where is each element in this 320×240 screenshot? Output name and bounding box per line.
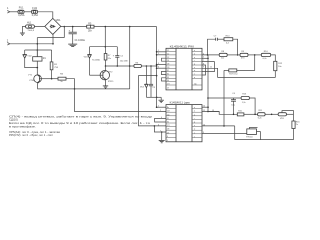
svg-text:в: в xyxy=(194,57,195,59)
node xyxy=(105,46,107,48)
ground xyxy=(159,97,164,102)
node xyxy=(271,114,273,116)
capacitor C1 xyxy=(69,27,86,44)
svg-text:5: 5 xyxy=(203,57,204,59)
node xyxy=(74,88,76,90)
zener VD4 xyxy=(140,66,148,97)
svg-text:0: 0 xyxy=(167,136,168,138)
node xyxy=(156,75,158,77)
svg-text:К145ИК11 (два: К145ИК11 (два xyxy=(170,101,190,105)
svg-text:С4: С4 xyxy=(167,60,169,62)
node xyxy=(37,67,39,69)
svg-text:д: д xyxy=(194,122,195,124)
svg-text:FU1: FU1 xyxy=(19,7,24,10)
node xyxy=(156,97,158,99)
node xyxy=(254,54,256,56)
svg-text:VD1: VD1 xyxy=(56,19,61,22)
svg-text:7: 7 xyxy=(160,130,161,132)
DD1 pin loop xyxy=(162,71,167,74)
fuse FU1 xyxy=(18,7,25,17)
zener VD2 xyxy=(23,50,38,68)
svg-text:СТ: СТ xyxy=(167,87,169,89)
wire xyxy=(22,27,25,33)
wire xyxy=(37,37,64,39)
wire xyxy=(146,96,161,98)
DD2 left pin wires xyxy=(156,106,166,133)
svg-text:4: 4 xyxy=(203,53,204,55)
svg-text:6: 6 xyxy=(158,67,159,69)
ground xyxy=(68,44,77,46)
svg-text:1: 1 xyxy=(158,106,159,108)
transistor VT2 xyxy=(100,66,113,86)
DD1 right pin wires xyxy=(202,53,219,77)
wire xyxy=(223,70,225,126)
svg-text:13: 13 xyxy=(212,110,214,112)
svg-text:9: 9 xyxy=(203,67,204,69)
terminal X2 xyxy=(7,39,10,46)
ground xyxy=(103,86,108,88)
wire lower rail xyxy=(208,112,237,115)
svg-text:в противофазе.: в противофазе. xyxy=(9,124,36,128)
wire xyxy=(154,126,166,132)
svg-text:2: 2 xyxy=(158,53,159,55)
crystal network C7 xyxy=(208,35,225,55)
DD2 pin loop xyxy=(155,118,166,122)
svg-text:СП(4) - вывод сетевых, работае: СП(4) - вывод сетевых, работает в паре с… xyxy=(9,115,153,119)
svg-text:0,25A: 0,25A xyxy=(32,14,39,17)
capacitor C3 xyxy=(149,66,156,97)
node xyxy=(37,49,39,51)
svg-text:8: 8 xyxy=(203,63,204,65)
note text block xyxy=(9,115,153,137)
svg-text:и: и xyxy=(194,77,195,79)
wire xyxy=(52,78,58,80)
node xyxy=(117,65,119,67)
node xyxy=(51,78,53,80)
svg-text:К1: К1 xyxy=(167,118,169,120)
DD1 pin loop xyxy=(162,78,167,81)
svg-text:10м 16В: 10м 16В xyxy=(120,61,128,63)
svg-text:2к: 2к xyxy=(296,124,298,126)
node xyxy=(154,125,156,127)
svg-text:К1: К1 xyxy=(167,70,169,72)
svg-text:е: е xyxy=(194,125,195,127)
resistor R6 xyxy=(134,63,157,68)
wire xyxy=(271,55,276,61)
svg-text:б: б xyxy=(194,53,195,55)
node xyxy=(237,54,239,56)
svg-text:КТ361: КТ361 xyxy=(29,80,34,82)
svg-text:а: а xyxy=(194,107,195,109)
capacitor C4 xyxy=(208,93,241,114)
svg-text:С1: С1 xyxy=(167,50,169,52)
svg-text:51к: 51к xyxy=(108,58,111,60)
node xyxy=(105,65,107,67)
wire xyxy=(36,68,38,76)
wire xyxy=(63,27,65,38)
svg-text:К145ИК11 РМ: К145ИК11 РМ xyxy=(170,45,195,49)
svg-text:0,25A: 0,25A xyxy=(18,14,25,17)
svg-text:в: в xyxy=(194,114,195,116)
wire module top xyxy=(90,46,118,48)
svg-text:С3: С3 xyxy=(167,57,169,59)
wire VT2 rail xyxy=(106,65,134,67)
svg-text:а: а xyxy=(194,50,195,52)
svg-text:ТН-0,3: ТН-0,3 xyxy=(27,30,34,32)
svg-text:д: д xyxy=(194,64,195,66)
svg-text:14: 14 xyxy=(203,106,205,108)
resistor R14 xyxy=(224,36,238,55)
node xyxy=(72,26,74,28)
svg-text:7: 7 xyxy=(203,60,204,62)
svg-text:С2: С2 xyxy=(167,53,169,55)
wire relay rail xyxy=(25,49,52,51)
svg-text:R17 1Ом: R17 1Ом xyxy=(229,73,238,75)
svg-text:6,2к: 6,2к xyxy=(263,58,267,60)
resistor R15 xyxy=(237,111,257,116)
node xyxy=(233,114,235,116)
svg-text:Вх: Вх xyxy=(167,107,169,109)
ground xyxy=(20,33,25,35)
capacitor C2 xyxy=(113,47,128,66)
wire bus2 xyxy=(207,55,209,112)
IC DD2 xyxy=(166,101,202,143)
lamp HL1 xyxy=(26,22,35,32)
wire xyxy=(10,11,18,13)
resistor R13 xyxy=(241,93,255,114)
wire xyxy=(234,126,236,140)
resistor R1 xyxy=(50,50,59,79)
resistor R7 xyxy=(104,47,111,66)
wire base xyxy=(39,78,51,80)
svg-text:11: 11 xyxy=(210,67,212,69)
svg-text:К2: К2 xyxy=(167,74,169,76)
node xyxy=(254,114,256,116)
wire bottom rail xyxy=(235,139,294,141)
wire xyxy=(34,25,44,27)
svg-text:6: 6 xyxy=(158,124,159,126)
svg-text:1: 1 xyxy=(158,50,159,52)
node xyxy=(161,131,163,133)
svg-text:К2: К2 xyxy=(167,122,169,124)
svg-text:1,2к: 1,2к xyxy=(242,102,246,104)
node xyxy=(52,43,54,45)
wire xyxy=(36,38,38,57)
node xyxy=(129,26,131,28)
wire top rail xyxy=(61,26,87,28)
svg-text:1к: 1к xyxy=(60,81,62,83)
wire main bus xyxy=(156,27,158,108)
svg-text:СТ: СТ xyxy=(167,132,169,134)
svg-text:РЭС10: РЭС10 xyxy=(246,137,253,139)
zener VD3 xyxy=(84,47,101,75)
bridge rectifier VD1 xyxy=(45,18,61,34)
svg-text:б: б xyxy=(194,111,195,113)
wire xyxy=(52,34,54,43)
svg-text:HL1: HL1 xyxy=(27,22,32,25)
ground xyxy=(159,140,165,142)
node xyxy=(64,26,66,28)
DD1 pin loop xyxy=(162,58,167,61)
resistor R12 xyxy=(274,61,283,77)
IC DD1 xyxy=(166,45,202,90)
wire xyxy=(227,54,240,56)
node xyxy=(150,65,152,67)
wire xyxy=(139,76,167,126)
relay K2 РЭС10 xyxy=(246,127,260,139)
svg-text:FU2: FU2 xyxy=(32,7,37,10)
node xyxy=(146,65,148,67)
wire xyxy=(24,11,32,13)
wire bus xyxy=(129,27,131,89)
resistor R10 xyxy=(261,51,270,60)
wire xyxy=(104,27,106,47)
node xyxy=(207,111,209,113)
node xyxy=(129,65,131,67)
resistor R9 xyxy=(240,51,248,60)
wire xyxy=(90,74,103,76)
wire emitter rail xyxy=(38,83,130,89)
svg-text:12: 12 xyxy=(203,110,205,112)
DD2 right pin wires xyxy=(202,106,247,134)
wire xyxy=(75,89,167,112)
node xyxy=(105,26,107,28)
wire xyxy=(38,12,53,19)
transistor VT1 xyxy=(28,74,41,83)
svg-text:Р05(СТ2): лог 0 - сброс, лог 1: Р05(СТ2): лог 0 - сброс, лог 1 - счёт xyxy=(9,133,54,137)
svg-text:2: 2 xyxy=(160,110,161,112)
relay K1 xyxy=(33,50,47,68)
svg-text:КС156А: КС156А xyxy=(92,58,100,61)
svg-text:10: 10 xyxy=(203,124,205,126)
DD1 left pin wires xyxy=(156,50,166,69)
svg-text:е: е xyxy=(194,67,195,69)
wire xyxy=(10,43,53,45)
svg-text:К4: К4 xyxy=(167,80,169,82)
resistor R17 1Ом xyxy=(224,55,255,76)
node xyxy=(207,106,209,108)
node xyxy=(37,43,39,45)
wire xyxy=(66,79,75,89)
terminal X1 xyxy=(7,6,10,13)
svg-text:9: 9 xyxy=(167,140,168,142)
svg-text:С1 1000м: С1 1000м xyxy=(75,40,86,42)
wire xyxy=(218,77,276,79)
resistor R4 xyxy=(58,74,66,83)
svg-text:10к: 10к xyxy=(278,66,281,68)
resistor R16 xyxy=(292,114,300,139)
diode VD5 xyxy=(278,111,293,121)
resistor R5 xyxy=(87,23,94,32)
svg-text:9: 9 xyxy=(203,132,204,134)
node xyxy=(156,65,158,67)
svg-text:12к: 12к xyxy=(221,58,224,60)
wire top rail xyxy=(94,26,157,28)
svg-text:6,2к: 6,2к xyxy=(258,118,262,120)
node xyxy=(207,54,209,56)
wire xyxy=(248,54,261,56)
wire xyxy=(161,132,163,140)
fuse FU2 xyxy=(32,7,39,17)
node xyxy=(207,97,209,99)
resistor R8 xyxy=(219,51,227,60)
svg-text:и: и xyxy=(194,136,195,138)
svg-text:КТ315: КТ315 xyxy=(108,81,113,83)
resistor R11 xyxy=(258,110,279,119)
svg-text:5: 5 xyxy=(158,63,159,65)
svg-text:К3: К3 xyxy=(167,77,169,79)
